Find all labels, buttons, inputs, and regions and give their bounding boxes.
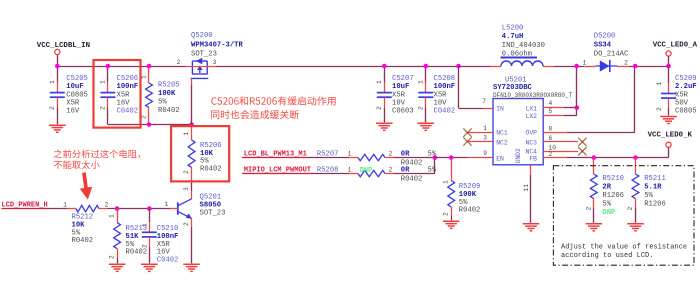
svg-text:11: 11: [523, 184, 530, 192]
svg-text:2: 2: [183, 222, 190, 226]
svg-text:5: 5: [549, 108, 553, 115]
svg-text:51K: 51K: [126, 233, 140, 241]
svg-text:2.2uF: 2.2uF: [675, 83, 697, 91]
svg-text:according to used LCD.: according to used LCD.: [561, 252, 653, 260]
svg-text:0R: 0R: [401, 150, 410, 158]
junction base node R5213: [115, 206, 120, 211]
pin stub L5200 pin1: [491, 66, 501, 68]
svg-text:DNP: DNP: [360, 167, 373, 175]
svg-text:100K: 100K: [459, 191, 477, 199]
svg-text:FB: FB: [529, 155, 537, 162]
annotation chinese line3: [54, 150, 140, 159]
wire R5213 pin2: [117, 258, 119, 264]
pin stub U5201 IN pin7: [483, 108, 493, 110]
ground under C5210: [141, 263, 158, 265]
svg-text:2: 2: [417, 106, 424, 110]
junction R5208 EN node: [433, 155, 438, 160]
junction VCC_LED0_A rail: [666, 64, 671, 69]
junction C5206 top: [106, 64, 111, 69]
annotation red box around R5206: [171, 126, 229, 181]
svg-text:2: 2: [177, 59, 181, 66]
wire C5208 to ground: [425, 107, 427, 122]
svg-text:Adjust the value of resistance: Adjust the value of resistance: [561, 243, 687, 251]
pin stub C5210 pin1: [149, 222, 151, 232]
resistor R5206: [188, 140, 195, 168]
svg-text:R0402: R0402: [200, 165, 222, 173]
svg-text:C0805: C0805: [675, 108, 697, 116]
pin stub U5201 OVP pin8: [543, 132, 567, 134]
pin stub C5206 pin2: [107, 97, 109, 107]
pin stub U5201 NC2 pin3: [468, 141, 493, 143]
no-connect X NC1: [463, 128, 471, 136]
svg-text:C0805: C0805: [66, 91, 88, 99]
svg-text:1: 1: [417, 80, 424, 84]
svg-text:5%: 5%: [200, 158, 209, 166]
pin stub L5200 pin2: [543, 66, 553, 68]
pin stub Q5201 emitter: [191, 218, 193, 227]
wire R5212 to Q5201 base: [108, 208, 170, 210]
pin stub C5207 pin1: [384, 82, 386, 92]
svg-text:5%: 5%: [126, 241, 135, 249]
wire R5210 pin2: [593, 208, 595, 223]
svg-text:DO_214AC: DO_214AC: [594, 50, 629, 58]
svg-text:VCC_LCDBL_IN: VCC_LCDBL_IN: [37, 42, 90, 50]
svg-text:2: 2: [656, 107, 663, 111]
svg-text:0R: 0R: [401, 166, 410, 174]
svg-text:10uF: 10uF: [392, 83, 409, 91]
wire to IN pin: [459, 108, 484, 110]
svg-text:NC1: NC1: [496, 130, 508, 137]
pin stub R5210 pin1: [593, 158, 595, 174]
pin stub D5200 pin1: [584, 66, 595, 68]
pin stub Q5201 collector: [191, 191, 193, 200]
wire Q5201 emitter to ground: [191, 228, 193, 264]
svg-text:2: 2: [183, 170, 190, 174]
wire R5207 to EN node: [394, 157, 435, 159]
wire MIPIO_LCM_PWMOUT to R5208: [312, 173, 349, 175]
inductor L5200: [501, 61, 543, 66]
junction LX node: [575, 106, 580, 111]
svg-text:5%: 5%: [428, 166, 437, 174]
pin stub Q5200 gate: [191, 78, 193, 85]
svg-text:100nF: 100nF: [157, 233, 179, 241]
ground under C5209: [660, 116, 677, 118]
annotation chinese line2: [211, 110, 299, 119]
svg-text:R0402: R0402: [158, 107, 180, 115]
junction R5205 bottom node: [147, 122, 152, 127]
capacitor C5209: [661, 93, 676, 95]
power symbol VCC_LED0_A: [666, 51, 671, 56]
svg-text:SY7203DBC: SY7203DBC: [493, 84, 533, 92]
svg-text:1: 1: [483, 125, 487, 132]
svg-text:EN: EN: [496, 155, 504, 162]
svg-text:5%: 5%: [158, 98, 167, 106]
wire C5210 pin2: [149, 247, 151, 263]
svg-text:NC3: NC3: [525, 139, 537, 146]
svg-text:5%: 5%: [72, 229, 81, 237]
svg-text:2: 2: [142, 244, 149, 248]
svg-text:X5R: X5R: [157, 241, 171, 249]
svg-text:2: 2: [105, 201, 109, 208]
svg-text:5%: 5%: [644, 192, 653, 200]
svg-text:10K: 10K: [72, 222, 86, 230]
svg-text:3: 3: [483, 134, 487, 141]
pin stub C5205 pin1: [57, 82, 59, 92]
svg-text:5.1R: 5.1R: [644, 184, 662, 192]
wire LCD_BL_PWM13_M1 to R5207: [308, 157, 349, 159]
pin stub R5208 pin1: [349, 173, 358, 175]
annotation chinese line4: [54, 160, 100, 169]
svg-text:Q5201: Q5201: [200, 194, 222, 202]
wire Q5200 gate down to node: [191, 85, 193, 125]
wire C5207 to ground: [384, 107, 386, 122]
svg-text:R0402: R0402: [459, 207, 481, 215]
svg-text:LX2: LX2: [525, 113, 537, 120]
pin stub C5206 pin1: [107, 82, 109, 92]
pin stub U5201 FB pin2: [543, 157, 567, 159]
svg-text:7: 7: [482, 98, 486, 105]
wire C5208 pin1: [425, 66, 427, 82]
wire LX2: [564, 115, 577, 117]
svg-text:1: 1: [183, 132, 190, 136]
svg-text:X5R: X5R: [392, 91, 406, 99]
svg-text:10V: 10V: [434, 99, 448, 107]
svg-text:4: 4: [549, 100, 553, 107]
wire EN node to U5201 EN: [435, 157, 468, 159]
svg-text:VCC_LED0_A: VCC_LED0_A: [653, 42, 698, 50]
svg-text:X5R: X5R: [66, 99, 80, 107]
svg-text:C0402: C0402: [434, 108, 456, 116]
svg-text:10K: 10K: [200, 150, 214, 158]
svg-text:R5212: R5212: [72, 214, 94, 222]
resistor R5209: [448, 181, 455, 208]
svg-text:2: 2: [443, 212, 450, 216]
pin stub C5210 pin2: [149, 237, 151, 247]
capacitor C5207: [377, 92, 392, 94]
pin stub U5201 NC1 pin1: [468, 132, 493, 134]
svg-text:L5200: L5200: [502, 25, 524, 33]
svg-text:R5209: R5209: [459, 183, 481, 191]
power symbol VCC_LCDBL_IN: [55, 49, 60, 54]
svg-text:C5207: C5207: [392, 75, 414, 83]
pin stub R5208 pin2: [385, 173, 394, 175]
resistor R5207: [358, 154, 385, 160]
ground under C5207: [376, 122, 393, 124]
pin stub Q5201 base: [170, 208, 178, 210]
pin stub R5211 pin2: [635, 199, 637, 208]
pin stub R5211 pin1: [635, 158, 637, 174]
svg-text:1: 1: [165, 201, 169, 208]
svg-text:3: 3: [213, 59, 217, 66]
power symbol VCC_LED0_K: [666, 142, 671, 147]
svg-text:5%: 5%: [602, 201, 611, 209]
svg-text:1: 1: [376, 80, 383, 84]
svg-text:2: 2: [376, 106, 383, 110]
svg-text:1: 1: [49, 80, 56, 84]
pin stub R5212 pin1: [67, 208, 76, 210]
junction R5205 top: [147, 64, 152, 69]
pin stub R5213 pin2: [117, 249, 119, 258]
ground under U5201 GND2: [523, 223, 540, 225]
resistor R5213: [114, 223, 121, 249]
svg-text:DNP: DNP: [602, 209, 616, 217]
wire R5209 pin2: [451, 216, 453, 220]
svg-text:10uF: 10uF: [66, 83, 83, 91]
svg-text:GND2: GND2: [515, 148, 522, 164]
svg-text:1: 1: [109, 214, 116, 218]
no-connect X NC2: [463, 137, 471, 145]
wire top rail left segment: [57, 66, 186, 68]
svg-text:1: 1: [142, 223, 149, 227]
junction C5208 rail: [424, 64, 429, 69]
junction IN drop: [456, 64, 461, 69]
svg-text:LX1: LX1: [525, 105, 537, 112]
wire C5210 pin1: [149, 209, 151, 223]
svg-text:2: 2: [586, 207, 593, 211]
svg-text:2: 2: [627, 207, 634, 211]
pin stub C5208 pin1: [425, 82, 427, 92]
svg-text:X5R: X5R: [117, 91, 131, 99]
resistor R5211: [632, 174, 639, 199]
junction base node C5210: [147, 206, 152, 211]
annotation red arrow: [80, 172, 92, 199]
wire VCC_LCDBL_IN to rail: [57, 55, 59, 66]
wire gate node horizontal: [108, 124, 192, 126]
pin stub R5209 pin2: [451, 207, 453, 216]
wire top rail mid segment: [216, 66, 491, 68]
junction gate node: [189, 122, 194, 127]
capacitor C5210: [142, 231, 157, 233]
svg-text:1: 1: [99, 80, 106, 84]
svg-text:DFN10_3R00X3R00X0R80_T: DFN10_3R00X3R00X0R80_T: [493, 92, 573, 99]
pin stub R5206 pin2: [191, 168, 193, 184]
ground under C5208: [418, 122, 435, 124]
svg-text:R5208: R5208: [317, 166, 339, 174]
pin stub R5209 pin1: [451, 158, 453, 181]
junction VCC_LCDBL_IN: [55, 64, 60, 69]
pin stub U5201 EN pin9: [468, 157, 493, 159]
pin stub R5205 pin1: [148, 66, 150, 83]
capacitor C5205: [50, 92, 65, 94]
svg-text:R5211: R5211: [644, 175, 666, 183]
pin stub C5208 pin2: [425, 97, 427, 107]
junction OVP rail: [633, 64, 638, 69]
annotation red box around C5206: [94, 60, 141, 128]
svg-text:1: 1: [348, 166, 352, 173]
svg-text:5%: 5%: [459, 199, 468, 207]
svg-text:IND_404030: IND_404030: [502, 42, 545, 50]
svg-text:2: 2: [99, 106, 106, 110]
ground under R5211: [627, 223, 644, 225]
pin stub C5205 pin2: [57, 97, 59, 107]
wire C5207 pin1: [384, 66, 386, 82]
svg-text:2: 2: [389, 150, 393, 157]
pin stub U5201 LX2 pin5: [543, 115, 564, 117]
wire Q5200 interior pin line: [192, 66, 207, 68]
svg-text:C5205: C5205: [66, 75, 88, 83]
pin stub U5201 NC4 pin10: [543, 151, 578, 153]
wire C5209 pin1: [668, 66, 670, 83]
svg-text:D5200: D5200: [594, 33, 616, 41]
wire rail down to IN: [458, 66, 460, 108]
transistor Q5201 NPN symbol: [177, 202, 179, 215]
wire R5208 up to EN node: [434, 158, 436, 174]
svg-text:WPM3407-3/TR: WPM3407-3/TR: [191, 41, 243, 49]
svg-text:R0402: R0402: [401, 175, 423, 183]
wire diode to VCC_LED0_A: [629, 66, 669, 68]
diode D5200: [596, 65, 618, 67]
wire OVP up to rail: [634, 66, 636, 132]
pin stub R5212 pin2: [99, 208, 108, 210]
svg-text:Q5200: Q5200: [191, 32, 213, 40]
svg-text:9: 9: [483, 150, 487, 157]
op-amp U5201 boost converter IC body: [493, 99, 543, 165]
pin stub C5207 pin2: [384, 97, 386, 107]
no-connect X NC4: [578, 147, 586, 155]
wire C5205 to ground: [57, 107, 59, 124]
svg-text:2: 2: [624, 59, 628, 66]
capacitor C5206: [100, 92, 115, 94]
ground under Q5201 emitter: [183, 263, 200, 265]
svg-text:R5207: R5207: [317, 150, 339, 158]
ground under C5205: [49, 124, 66, 126]
svg-text:1: 1: [348, 150, 352, 157]
resistor R5212: [76, 205, 99, 211]
svg-text:16V: 16V: [157, 249, 171, 257]
wire R5206 to Q5201 collector: [191, 183, 193, 191]
svg-text:SS34: SS34: [594, 41, 612, 49]
ground under R5210: [586, 223, 603, 225]
junction LX rail: [574, 64, 579, 69]
junction C5207 rail: [382, 64, 387, 69]
pin stub U5201 LX1 pin4: [543, 107, 564, 109]
wire C5206 down to gate node: [107, 107, 109, 124]
wire C5209 to ground: [668, 108, 670, 115]
svg-text:X5R: X5R: [434, 91, 448, 99]
svg-text:1: 1: [656, 82, 663, 86]
wire LX1: [564, 107, 577, 109]
svg-text:C5206: C5206: [117, 75, 139, 83]
wire OVP horizontal: [567, 132, 635, 134]
wire FB horizontal: [567, 157, 669, 159]
svg-text:6: 6: [549, 135, 553, 142]
svg-text:16V: 16V: [117, 99, 131, 107]
svg-text:OVP: OVP: [525, 130, 537, 137]
svg-text:NC2: NC2: [496, 139, 508, 146]
wire R5211 pin2: [635, 208, 637, 223]
svg-text:2R: 2R: [602, 184, 611, 192]
pin stub R5207 pin1: [349, 157, 358, 159]
wire LX2 up to LX1: [576, 108, 578, 116]
svg-text:2: 2: [389, 166, 393, 173]
junction R5210 top: [592, 155, 597, 160]
svg-text:C0402: C0402: [157, 256, 179, 264]
pin stub R5205 pin2: [148, 108, 150, 125]
pin stub D5200 pin2: [618, 66, 629, 68]
wire C5206 pin1: [107, 66, 109, 82]
svg-text:IN: IN: [496, 105, 504, 112]
svg-text:S8050: S8050: [200, 202, 222, 210]
capacitor C5208: [418, 92, 433, 94]
svg-text:1: 1: [63, 201, 67, 208]
svg-text:R5205: R5205: [158, 82, 180, 90]
ground under R5209: [443, 220, 460, 222]
svg-text:R5206: R5206: [200, 142, 222, 150]
annotation dashed box: [553, 166, 694, 266]
svg-text:2: 2: [549, 151, 553, 158]
wire rail inductor to diode: [553, 66, 584, 68]
pin stub R5210 pin2: [593, 199, 595, 208]
svg-text:100nF: 100nF: [434, 83, 456, 91]
svg-text:R1206: R1206: [602, 192, 624, 200]
svg-text:C0402: C0402: [117, 108, 139, 116]
wire GND2 to ground: [530, 175, 532, 223]
pin stub Q5200 pin2: [186, 66, 192, 68]
junction R5209 top: [449, 155, 454, 160]
pin stub U5201 GND2 pin11: [530, 165, 532, 175]
svg-text:C0603: C0603: [392, 108, 414, 116]
pin stub Q5200 pin3: [207, 66, 216, 68]
pin stub R5213 pin1: [117, 209, 119, 223]
no-connect X NC3: [578, 138, 586, 146]
svg-text:16V: 16V: [66, 108, 80, 116]
wire R5208 to EN node: [394, 173, 435, 175]
svg-text:100nF: 100nF: [117, 83, 139, 91]
resistor R5208: [358, 170, 385, 176]
svg-text:SOT_23: SOT_23: [191, 51, 217, 59]
svg-text:C5210: C5210: [157, 225, 179, 233]
svg-text:R1206: R1206: [644, 201, 666, 209]
wire C5205 pin1: [57, 66, 59, 82]
transistor Q5200 P-MOSFET symbol: [191, 61, 209, 78]
ground under R5213: [109, 263, 126, 265]
svg-text:2: 2: [109, 255, 116, 259]
pin stub R5207 pin2: [385, 157, 394, 159]
svg-text:X5R: X5R: [675, 91, 689, 99]
svg-text:R0402: R0402: [72, 237, 94, 245]
svg-text:VCC_LED0_K: VCC_LED0_K: [648, 132, 693, 140]
wire VCC_LED0_A to rail: [668, 56, 670, 66]
svg-text:10V: 10V: [392, 99, 406, 107]
junction R5211 top: [633, 155, 638, 160]
resistor R5210: [590, 174, 597, 199]
svg-text:3: 3: [183, 187, 190, 191]
svg-text:R5210: R5210: [602, 175, 624, 183]
svg-text:1: 1: [583, 59, 587, 66]
wire LX node up to rail: [576, 66, 578, 108]
annotation chinese line1: [211, 96, 335, 105]
pin stub R5206 pin1: [191, 125, 193, 141]
resistor R5205: [146, 83, 153, 108]
svg-text:100K: 100K: [158, 90, 176, 98]
svg-text:50V: 50V: [675, 99, 689, 107]
pin stub C5209 pin1: [668, 83, 670, 93]
svg-text:4.7uH: 4.7uH: [502, 33, 524, 41]
pin stub U5201 NC3 pin6: [543, 141, 578, 143]
wire LCD_PWREN_H to R5212: [48, 208, 68, 210]
svg-text:C5209: C5209: [675, 75, 697, 83]
svg-text:1: 1: [443, 180, 450, 184]
svg-text:R0402: R0402: [126, 249, 148, 257]
pin stub C5209 pin2: [668, 98, 670, 108]
svg-text:2: 2: [49, 106, 56, 110]
svg-text:8: 8: [549, 126, 553, 133]
wire VCC_LED0_K down to FB: [668, 147, 670, 157]
svg-text:SOT_23: SOT_23: [200, 209, 226, 217]
svg-text:C5208: C5208: [434, 75, 456, 83]
